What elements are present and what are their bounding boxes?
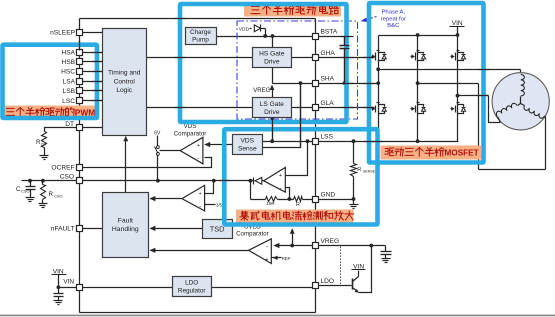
- svg-text:repeat for: repeat for: [381, 16, 406, 22]
- svg-text:DT: DT: [65, 121, 74, 128]
- svg-text:VREG: VREG: [253, 88, 270, 94]
- svg-text:6V: 6V: [154, 130, 161, 136]
- svg-text:Logic: Logic: [116, 87, 132, 94]
- svg-text:Comparator: Comparator: [174, 130, 207, 137]
- svg-text:OCREF: OCREF: [51, 165, 74, 172]
- svg-text:VDS: VDS: [241, 137, 255, 144]
- svg-text:Drive: Drive: [264, 59, 280, 66]
- svg-text:VIN: VIN: [53, 268, 64, 275]
- svg-text:LDO: LDO: [321, 278, 335, 285]
- svg-text:Timing and: Timing and: [108, 70, 141, 77]
- svg-text:LDO: LDO: [185, 279, 198, 286]
- svg-text:-: -: [199, 203, 201, 210]
- svg-text:nSLEEP: nSLEEP: [50, 29, 76, 36]
- svg-text:SENSE: SENSE: [363, 169, 376, 173]
- svg-text:-: -: [197, 156, 199, 163]
- svg-text:R: R: [296, 202, 300, 208]
- svg-text:+: +: [199, 191, 202, 197]
- svg-text:LS Gate: LS Gate: [260, 101, 285, 108]
- svg-text:VIN: VIN: [452, 20, 463, 27]
- svg-text:Sense: Sense: [238, 145, 257, 152]
- svg-text:-: -: [280, 185, 282, 192]
- svg-text:R: R: [357, 167, 361, 173]
- svg-text:Charge: Charge: [190, 29, 211, 36]
- svg-text:VIN: VIN: [353, 263, 364, 270]
- svg-text:CSO: CSO: [60, 173, 74, 180]
- svg-text:LSA: LSA: [63, 78, 76, 85]
- svg-text:+: +: [279, 173, 282, 179]
- svg-text:3/5: 3/5: [216, 202, 223, 207]
- svg-text:Drive: Drive: [264, 109, 280, 116]
- svg-text:Phase A,: Phase A,: [382, 10, 406, 16]
- svg-text:VIN: VIN: [63, 278, 74, 285]
- svg-text:R: R: [49, 191, 54, 198]
- svg-text:LSC: LSC: [62, 98, 75, 105]
- svg-text:19R: 19R: [266, 201, 275, 206]
- svg-text:LSB: LSB: [63, 88, 76, 95]
- svg-text:VREG: VREG: [321, 238, 340, 245]
- svg-text:BSTA: BSTA: [321, 28, 338, 35]
- svg-text:nFAULT: nFAULT: [51, 225, 75, 232]
- svg-text:MOSFET: MOSFET: [445, 148, 479, 157]
- svg-text:Comparator: Comparator: [236, 231, 269, 238]
- svg-text:GLA: GLA: [321, 100, 335, 107]
- svg-text:Pump: Pump: [192, 36, 209, 43]
- svg-text:HSC: HSC: [61, 69, 75, 76]
- svg-text:+: +: [265, 257, 268, 263]
- svg-text:+: +: [197, 143, 200, 149]
- svg-text:Control: Control: [114, 78, 136, 85]
- svg-text:TSD: TSD: [210, 225, 225, 234]
- svg-text:Handling: Handling: [112, 226, 139, 233]
- svg-text:SHA: SHA: [321, 76, 335, 83]
- svg-text:REF: REF: [282, 256, 291, 261]
- svg-text:Fault: Fault: [118, 217, 133, 224]
- svg-text:CSO: CSO: [21, 189, 30, 194]
- svg-text:HS Gate: HS Gate: [259, 50, 285, 57]
- svg-text:B&C: B&C: [387, 23, 400, 29]
- svg-text:GND: GND: [321, 191, 336, 198]
- svg-text:GHA: GHA: [321, 50, 336, 57]
- svg-text:-: -: [266, 243, 268, 250]
- svg-text:Regulator: Regulator: [178, 287, 207, 294]
- svg-text:HSB: HSB: [61, 59, 75, 66]
- svg-text:DT: DT: [41, 142, 47, 147]
- svg-text:HSA: HSA: [61, 49, 75, 56]
- svg-text:LSS: LSS: [321, 134, 334, 141]
- svg-text:VDD: VDD: [239, 26, 250, 32]
- svg-text:CSO: CSO: [54, 194, 63, 199]
